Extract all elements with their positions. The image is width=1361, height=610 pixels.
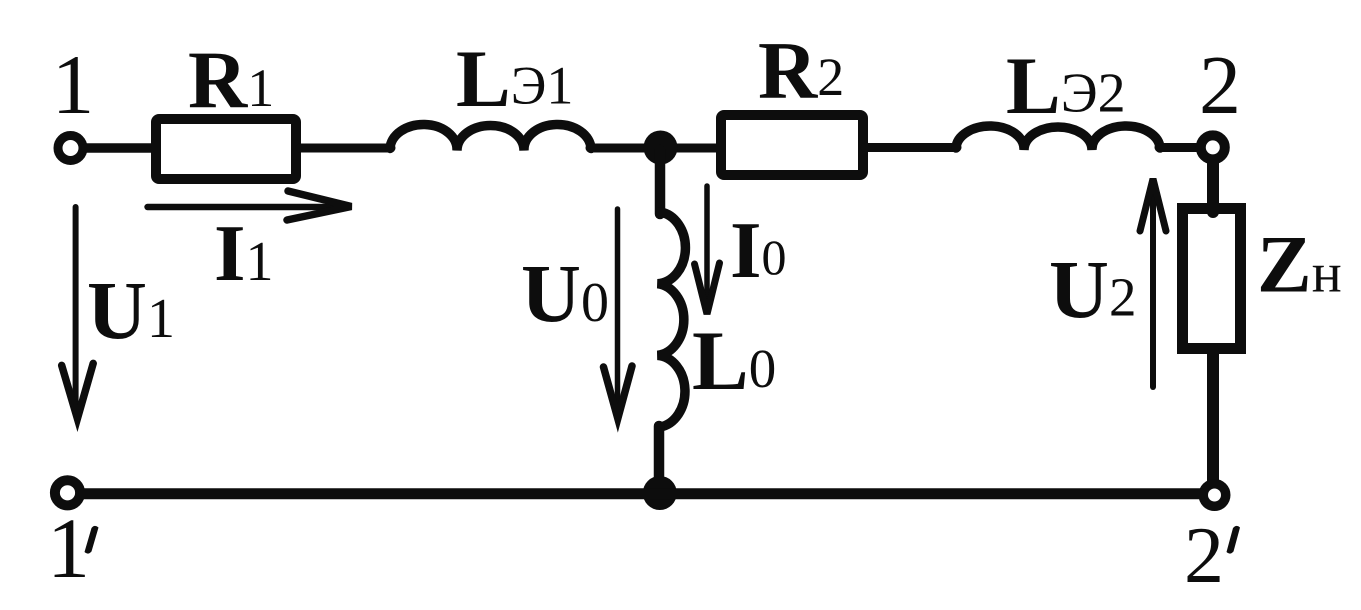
svg-text:2: 2 — [1184, 512, 1224, 600]
wire L_e1 to node A — [590, 144, 721, 153]
apostrophe of 1' — [85, 526, 99, 554]
inductor L_e1 — [390, 124, 591, 150]
wire Z_n to terminal 2' — [1207, 350, 1219, 481]
wire middle branch upper (node A to L0) — [655, 150, 666, 214]
arrow I0 — [695, 186, 720, 314]
resistor R1 — [156, 119, 296, 179]
wire L_e2 to terminal 2 — [1159, 143, 1198, 152]
arrow U0 — [604, 209, 633, 419]
terminal 2' — [1203, 484, 1226, 507]
svg-text:2: 2 — [1199, 39, 1241, 132]
arrow I1 — [148, 191, 352, 220]
bottom wire 1' to 2' — [84, 488, 1200, 499]
wire R1 to L_e1 — [300, 144, 391, 153]
terminal 1' — [55, 480, 80, 505]
apostrophe of 2' — [1227, 526, 1241, 554]
arrow U1 — [62, 207, 93, 419]
svg-text:1: 1 — [52, 38, 95, 132]
inductor L0 — [658, 212, 686, 427]
wire terminal 2 to Z_n — [1207, 161, 1219, 212]
terminal 1 — [58, 136, 83, 161]
node A (top junction) — [644, 131, 678, 165]
resistor R2 — [721, 115, 863, 175]
arrow U2 — [1140, 179, 1166, 387]
wire L0 to node B — [654, 426, 665, 480]
node B (bottom junction) — [643, 476, 677, 510]
load Z_n — [1183, 209, 1241, 349]
wire terminal1 to R1 — [86, 143, 156, 153]
svg-text:1: 1 — [47, 500, 90, 596]
terminal 2 — [1201, 135, 1225, 159]
inductor L_e2 — [956, 126, 1160, 150]
wire R2 to L_e2 — [865, 143, 957, 152]
